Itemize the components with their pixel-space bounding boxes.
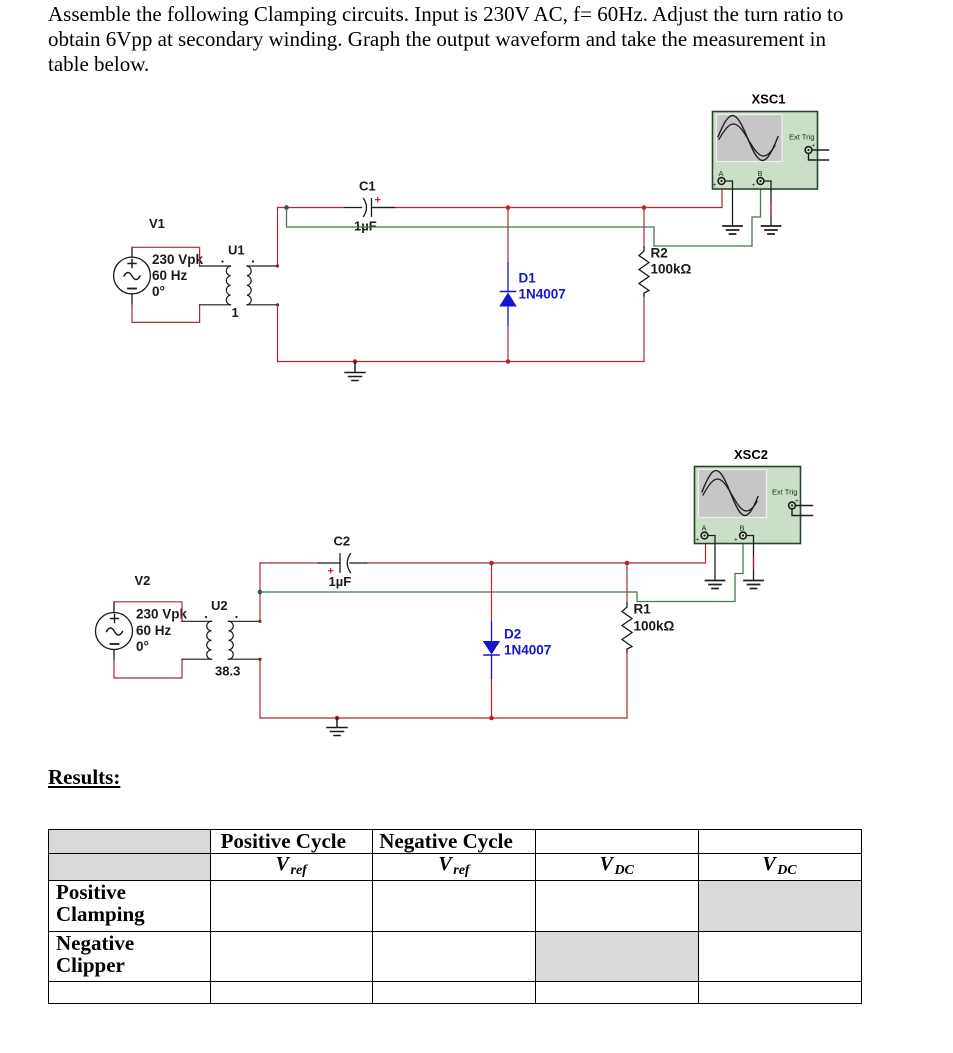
ground scope A 2 [706,581,725,589]
oscilloscope XSC2 [695,467,801,544]
value V2 [136,607,188,655]
wire V2 loop [114,602,182,678]
wire R1 branch [626,563,628,718]
diode D2 [483,622,500,679]
wire D2 branch [491,563,493,718]
svg-text:60 Hz: 60 Hz [152,268,188,283]
svg-text:0°: 0° [152,284,165,299]
capacitor C1 [345,199,395,217]
svg-text:V1: V1 [149,216,165,231]
resistor R2 [639,247,649,296]
capacitor C2 [319,554,367,573]
svg-text:XSC1: XSC1 [752,92,786,107]
node green junction 2 [258,590,263,595]
wire secondary risers 2 [259,563,261,718]
ground circuit 1 [345,362,365,381]
node pin dots U2 [258,620,261,623]
wire D1 branch [507,208,509,362]
ground scope B 2 [744,581,763,589]
svg-text:R1: R1 [634,602,652,617]
wire bottom rail 2 [260,717,627,719]
svg-text:A: A [702,524,707,533]
svg-text:B: B [740,524,745,533]
wire scope B ground 2 [747,536,754,581]
node R2 top [642,205,647,210]
paragraph [48,2,918,77]
node D2 bottom [489,716,494,721]
results heading [48,765,120,790]
ground scope B 1 [762,226,781,234]
wire ext trig stubs 1 [809,150,829,160]
svg-text:230 Vpk: 230 Vpk [136,607,188,622]
svg-text:B: B [758,169,763,178]
svg-text:100kΩ: 100kΩ [634,619,675,634]
node green junction [284,205,289,210]
svg-text:1N4007: 1N4007 [519,287,566,302]
wire green probe B 2 [260,542,743,602]
source V1 [114,247,151,304]
node ground 1 [353,359,358,364]
svg-text:C2: C2 [334,534,351,549]
wire R2 branch [643,208,645,362]
wire scope A ground 2 [708,536,715,581]
wire green probe B [287,187,761,246]
svg-text:D2: D2 [504,627,521,642]
node pin dots U1 [276,264,279,267]
results table [48,829,862,1004]
svg-text:D1: D1 [519,271,537,286]
svg-text:XSC2: XSC2 [734,447,768,462]
value 230 Vpk 60 Hz 0deg [152,252,204,299]
node R1 top [625,561,630,566]
svg-text:+: + [713,182,717,189]
svg-text:0°: 0° [136,639,149,654]
svg-text:60 Hz: 60 Hz [136,623,172,638]
node D1 top [506,205,511,210]
svg-text:A: A [719,169,724,178]
svg-text:+: + [696,537,700,544]
wire scope A ground 1 [725,181,733,226]
svg-text:+: + [375,195,381,207]
wire scope B ground 1 [764,181,771,226]
svg-text:U2: U2 [211,598,228,613]
svg-text:V2: V2 [135,573,151,588]
svg-text:1N4007: 1N4007 [504,643,551,658]
node ground 2 [335,716,340,721]
svg-text:100kΩ: 100kΩ [651,262,692,277]
svg-text:+: + [734,537,738,544]
svg-text:1µF: 1µF [354,219,377,234]
wire top rail c1 [278,186,723,208]
svg-text:1: 1 [232,305,239,320]
wire V1 top loop [132,247,200,322]
svg-text:+: + [752,182,756,189]
diode D1 [499,263,517,325]
wire red B ground overlay 2 [753,557,755,569]
transformer U1 [221,260,277,304]
svg-text:Ext Trig: Ext Trig [772,488,797,497]
svg-text:230 Vpk: 230 Vpk [152,252,204,267]
svg-text:Ext Trig: Ext Trig [789,133,814,142]
transformer U2 [205,616,260,659]
node D2 top [489,561,494,566]
wire red B ground overlay [770,203,772,215]
wire secondary risers [277,208,279,362]
wire bottom rail 1 [278,361,645,363]
ground circuit 2 [327,718,347,736]
wire V1 to transformer leads [200,266,231,305]
svg-text:+: + [812,143,816,150]
svg-text:38.3: 38.3 [215,664,240,679]
svg-text:1µF: 1µF [329,574,352,589]
wire ext trig stubs 2 [792,506,813,516]
svg-text:C1: C1 [359,179,376,194]
source V2 [96,602,133,660]
wire V2 to transformer [182,621,212,659]
ground scope A 1 [723,226,742,234]
resistor R1 [622,603,632,652]
svg-text:R2: R2 [651,246,668,261]
svg-text:+: + [795,498,799,505]
wire top rail c2 [260,541,706,563]
svg-text:U1: U1 [228,243,245,258]
oscilloscope XSC1 [713,112,818,190]
node D1 bottom [506,359,511,364]
